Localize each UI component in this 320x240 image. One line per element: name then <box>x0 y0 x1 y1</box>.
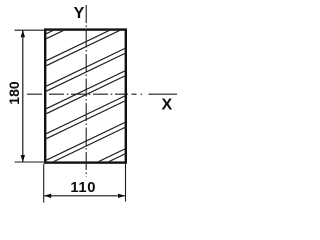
180 dimension line <box>22 30 24 162</box>
hatch pair 1 <box>40 0 130 37</box>
horizontal centerline (X axis), inside portion <box>27 93 128 95</box>
110 dimension: extension line left <box>43 164 45 203</box>
hatch pair 6 <box>40 120 130 163</box>
hatch pair 2 <box>40 21 130 64</box>
110 dimension line <box>44 195 126 197</box>
hatch pair 7 <box>40 147 130 190</box>
svg-text:110: 110 <box>70 180 96 196</box>
110 dimension arrow left <box>44 194 51 198</box>
110 dimension: extension line right <box>125 164 127 202</box>
180 dimension: extension line top <box>15 29 45 31</box>
hatch pair 4 <box>40 69 130 112</box>
vertical centerline (Y axis) <box>85 5 87 177</box>
hatching (section lines) <box>40 0 130 195</box>
svg-text:Y: Y <box>74 5 85 22</box>
180 dimension arrow up <box>21 30 25 37</box>
180 dimension: extension line bottom <box>15 161 45 163</box>
110 dimension arrow right <box>118 194 125 198</box>
section rectangle outline <box>45 30 126 163</box>
hatch pair 5 <box>40 94 130 137</box>
svg-text:180: 180 <box>6 81 22 105</box>
horizontal centerline (X axis), right portion <box>132 93 178 95</box>
svg-text:X: X <box>161 97 172 114</box>
180 dimension arrow down <box>21 155 25 162</box>
hatch pair 3 <box>40 46 130 89</box>
